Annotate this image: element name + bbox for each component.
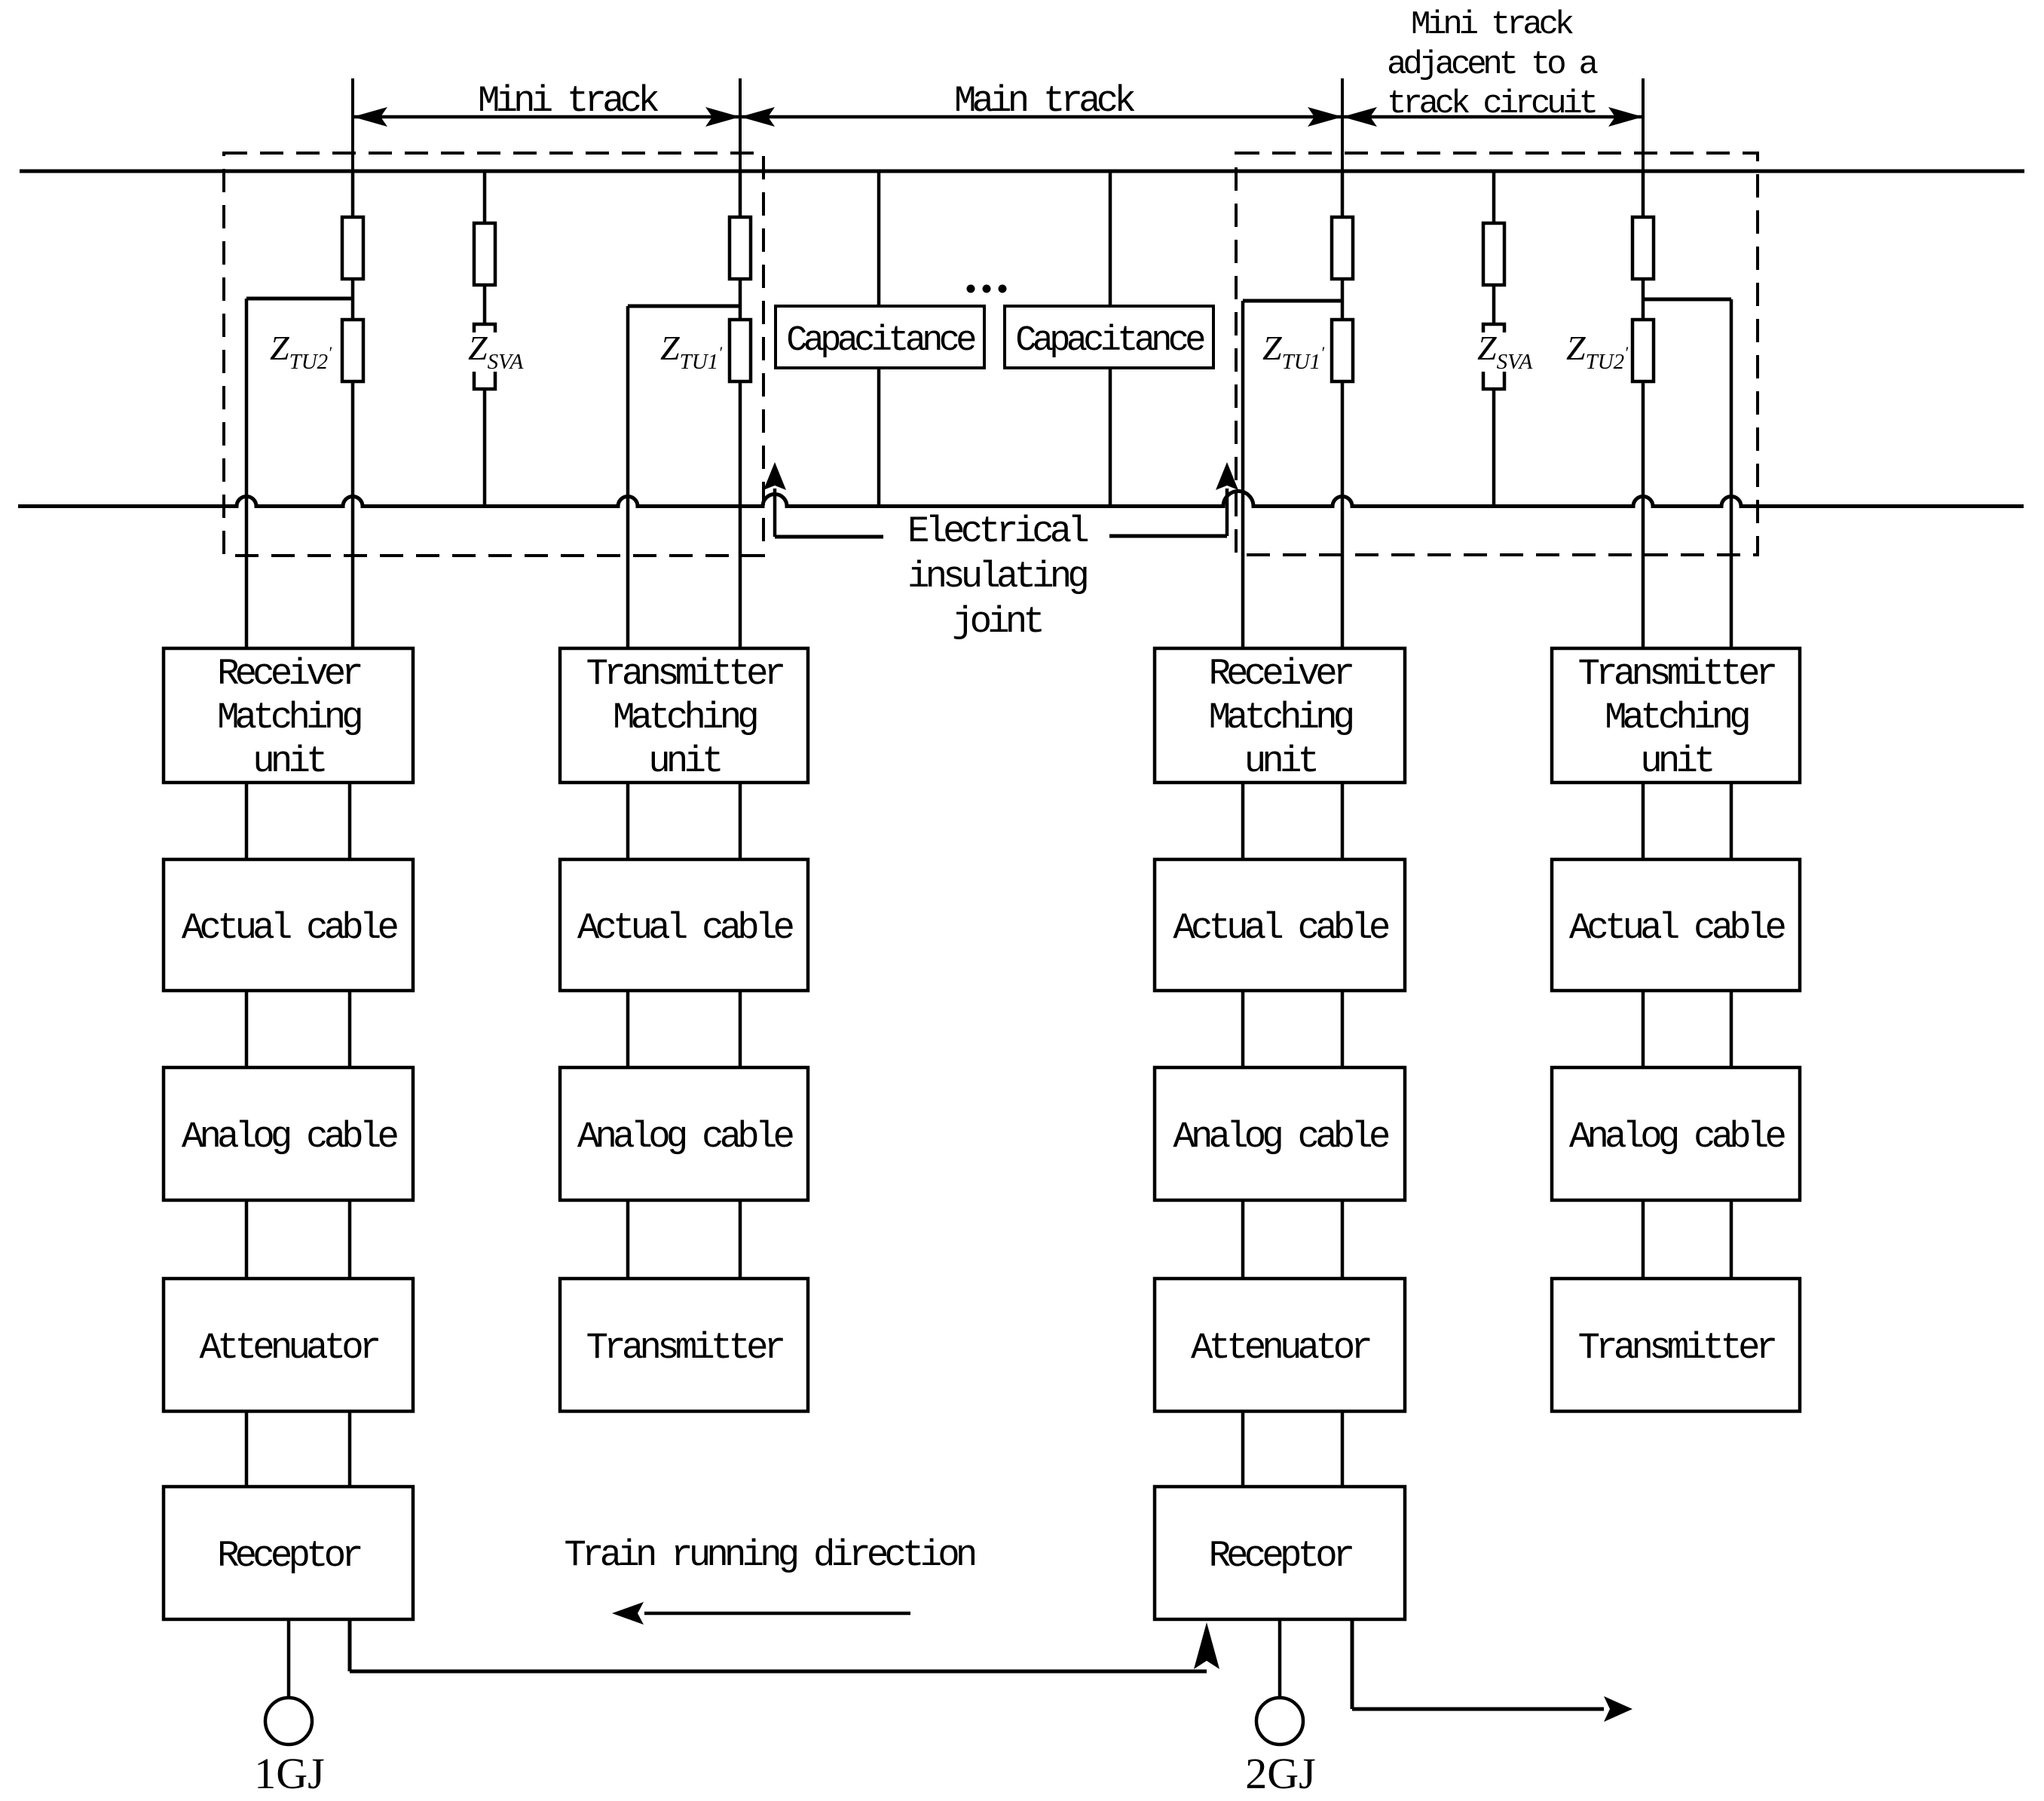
svg-text:unit: unit: [1244, 740, 1317, 783]
svg-text:Actual cable: Actual cable: [1569, 907, 1785, 949]
svg-text:joint: joint: [952, 601, 1042, 643]
svg-text:1GJ: 1GJ: [254, 1749, 324, 1797]
svg-text:Attenuator: Attenuator: [1191, 1327, 1369, 1369]
svg-text:Mini track: Mini track: [478, 80, 658, 122]
svg-text:unit: unit: [252, 740, 325, 783]
svg-text:2GJ: 2GJ: [1245, 1749, 1315, 1797]
svg-text:Transmitter: Transmitter: [1578, 1327, 1775, 1369]
svg-text:Mini track: Mini track: [1411, 6, 1574, 44]
svg-text:Electrical: Electrical: [907, 510, 1088, 553]
svg-text:unit: unit: [648, 740, 721, 783]
svg-text:Receiver: Receiver: [1209, 653, 1352, 695]
svg-text:unit: unit: [1640, 740, 1712, 783]
svg-text:Matching: Matching: [613, 697, 757, 739]
svg-text:Actual cable: Actual cable: [577, 907, 794, 949]
svg-text:Matching: Matching: [1605, 697, 1749, 739]
svg-text:Receptor: Receptor: [217, 1535, 360, 1577]
svg-text:Analog cable: Analog cable: [1173, 1116, 1389, 1158]
svg-text:Attenuator: Attenuator: [199, 1327, 378, 1369]
svg-text:Main track: Main track: [954, 80, 1134, 122]
svg-text:insulating: insulating: [907, 556, 1087, 598]
svg-text:Actual cable: Actual cable: [1173, 907, 1389, 949]
svg-text:Transmitter: Transmitter: [586, 653, 783, 695]
svg-text:Transmitter: Transmitter: [1578, 653, 1775, 695]
svg-text:Receptor: Receptor: [1209, 1535, 1352, 1577]
svg-text:Analog cable: Analog cable: [577, 1116, 794, 1158]
svg-text:Matching: Matching: [217, 697, 361, 739]
svg-text:Train running direction: Train running direction: [565, 1534, 975, 1576]
svg-text:Analog cable: Analog cable: [182, 1116, 398, 1158]
svg-text:adjacent to a: adjacent to a: [1387, 46, 1597, 84]
svg-text:Receiver: Receiver: [217, 653, 360, 695]
svg-text:Actual cable: Actual cable: [182, 907, 398, 949]
svg-text:Capacitance: Capacitance: [786, 321, 975, 361]
svg-text:track circuit: track circuit: [1387, 85, 1595, 123]
svg-text:Analog cable: Analog cable: [1569, 1116, 1785, 1158]
svg-text:Transmitter: Transmitter: [586, 1327, 783, 1369]
svg-text:Matching: Matching: [1209, 697, 1353, 739]
svg-text:Capacitance: Capacitance: [1015, 321, 1204, 361]
